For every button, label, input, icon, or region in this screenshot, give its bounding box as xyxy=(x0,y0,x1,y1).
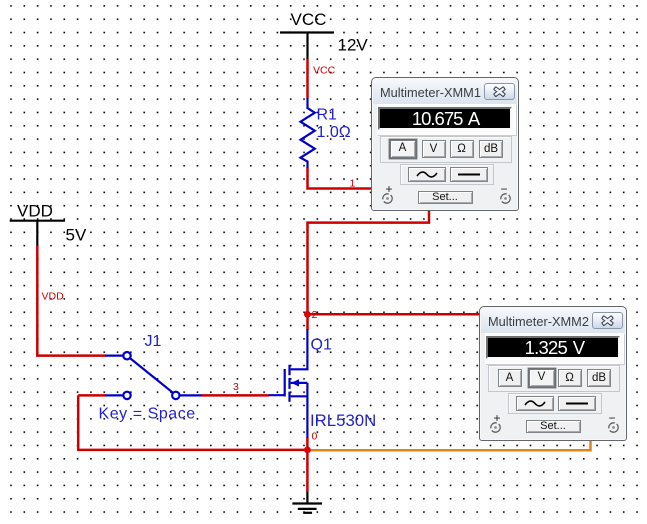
svg-text:2: 2 xyxy=(312,309,318,321)
svg-text:VCC: VCC xyxy=(291,10,327,29)
svg-text:1: 1 xyxy=(350,178,356,190)
svg-text:5V: 5V xyxy=(66,226,87,245)
svg-text:VCC: VCC xyxy=(313,65,336,77)
svg-text:12V: 12V xyxy=(338,36,369,55)
svg-text:0: 0 xyxy=(312,431,318,443)
svg-text:Key = Space: Key = Space xyxy=(99,406,196,423)
svg-text:VDD: VDD xyxy=(17,201,53,220)
svg-text:Q1: Q1 xyxy=(311,337,332,354)
svg-text:VDD: VDD xyxy=(42,291,65,303)
svg-text:IRL530N: IRL530N xyxy=(310,411,376,430)
svg-text:1.0Ω: 1.0Ω xyxy=(317,124,351,141)
svg-text:R1: R1 xyxy=(317,107,338,124)
svg-text:3: 3 xyxy=(233,381,239,393)
svg-text:J1: J1 xyxy=(145,333,162,350)
